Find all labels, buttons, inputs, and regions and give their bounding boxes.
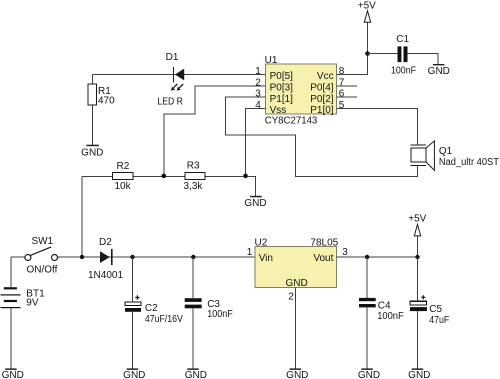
wire battery bottom to ground (10, 308, 12, 368)
svg-text:C4: C4 (378, 301, 391, 312)
capacitor C4 (359, 298, 376, 308)
wire C5 drop (417, 257, 419, 368)
U1 left pin labels (270, 71, 294, 116)
label 100nF C3 (207, 309, 233, 320)
transducer Q1 (411, 141, 435, 170)
wire +5V riser (417, 236, 419, 257)
ground under R1 (81, 145, 103, 159)
label Q1 (439, 146, 453, 157)
label R1 (98, 86, 111, 97)
resistor R3 (185, 172, 205, 179)
ground C3 (185, 368, 207, 379)
power +5V bottom (408, 214, 426, 236)
label 9V (26, 298, 39, 309)
svg-text:P1[0]: P1[0] (310, 105, 334, 116)
svg-text:Vin: Vin (259, 253, 273, 264)
svg-text:8: 8 (339, 66, 345, 77)
svg-text:Vss: Vss (270, 105, 287, 116)
label U1 (265, 55, 278, 66)
svg-text:LED R: LED R (157, 96, 183, 107)
svg-text:100nF: 100nF (207, 309, 233, 320)
svg-text:9V: 9V (26, 298, 39, 309)
svg-text:1: 1 (255, 66, 261, 77)
ground C5 (408, 368, 430, 379)
label 100nF C1 (391, 65, 416, 76)
power +5V top (358, 1, 376, 23)
svg-text:GND: GND (81, 148, 103, 159)
svg-text:47uF/16V: 47uF/16V (145, 314, 183, 325)
label 3,3k (184, 181, 204, 192)
wire U1 pin5 to speaker top (336, 108, 417, 145)
wire bottom row left (11, 256, 255, 258)
node +5V C1 junction (365, 51, 370, 56)
LED arrows (171, 84, 183, 91)
svg-text:78L05: 78L05 (310, 237, 338, 248)
svg-text:470: 470 (98, 95, 115, 106)
svg-text:100nF: 100nF (391, 65, 416, 76)
battery BT1 (1, 287, 21, 308)
label C2 (145, 303, 158, 314)
svg-text:7: 7 (339, 78, 345, 89)
svg-text:100nF: 100nF (377, 311, 404, 322)
wire U1 pin3 to speaker bottom (226, 97, 418, 176)
wire C1 right to ground (408, 54, 438, 65)
node C5 junction (415, 255, 419, 259)
node C3 junction (191, 255, 195, 259)
label BT1 (26, 288, 45, 299)
ground C4 (358, 368, 380, 379)
label U2 (255, 237, 268, 248)
regulator U2 box (255, 247, 336, 288)
svg-text:P0[2]: P0[2] (310, 94, 334, 105)
wire R1 vertical (92, 75, 94, 145)
svg-text:R3: R3 (187, 160, 200, 171)
wire U1 pin8 to +5V (336, 22, 367, 75)
label Nad_ultr 40ST (439, 157, 499, 168)
label LED R (157, 96, 183, 107)
ground C1 (428, 64, 450, 77)
svg-text:U2: U2 (255, 237, 268, 248)
svg-text:GND: GND (358, 370, 380, 379)
svg-text:3: 3 (255, 89, 261, 100)
svg-text:P0[3]: P0[3] (270, 83, 294, 94)
label 47uF (429, 315, 449, 326)
svg-text:D1: D1 (166, 52, 179, 63)
ground C2 (123, 368, 145, 379)
label C5 (429, 304, 442, 315)
svg-text:6: 6 (339, 89, 345, 100)
resistor R1 (88, 84, 97, 105)
svg-text:4: 4 (255, 100, 261, 111)
node R3 Vss junction (243, 174, 248, 179)
switch SW1 (25, 247, 58, 261)
svg-text:Q1: Q1 (439, 146, 453, 157)
svg-text:1N4001: 1N4001 (88, 270, 123, 281)
svg-text:P1[1]: P1[1] (270, 94, 294, 105)
svg-text:SW1: SW1 (32, 236, 54, 247)
U1 right pin labels (310, 71, 334, 116)
svg-text:C3: C3 (207, 299, 220, 310)
svg-text:Vcc: Vcc (317, 71, 334, 82)
svg-text:GND: GND (428, 66, 450, 77)
svg-text:C2: C2 (145, 303, 158, 314)
label 47uF/16V (145, 314, 183, 325)
svg-text:GND: GND (2, 370, 24, 379)
U1 pin numbers right (339, 66, 345, 111)
wire C3 drop (192, 257, 194, 368)
svg-text:GND: GND (185, 370, 207, 379)
svg-text:P0[4]: P0[4] (310, 83, 334, 94)
label ON/Off (27, 265, 58, 276)
svg-text:D2: D2 (99, 237, 112, 248)
ground battery (2, 368, 24, 379)
svg-text:U1: U1 (265, 55, 278, 66)
svg-text:R2: R2 (117, 161, 130, 172)
label D2 (99, 237, 112, 248)
wire C2 drop (132, 257, 134, 368)
capacitor C1 (398, 46, 408, 62)
label 100nF C4 (377, 311, 404, 322)
wire U1 pin6 stub (336, 96, 357, 98)
label SW1 (32, 236, 54, 247)
svg-text:GND: GND (123, 370, 145, 379)
U2 pin numbers (247, 247, 348, 302)
wire U1 pin7 stub (336, 85, 357, 87)
label 78L05 (310, 237, 338, 248)
svg-text:P0[5]: P0[5] (270, 71, 294, 82)
svg-text:GND: GND (286, 370, 308, 379)
wire U2 pin2 to ground (294, 288, 296, 369)
wire C4 drop (366, 257, 368, 368)
svg-text:10k: 10k (115, 181, 132, 192)
svg-text:2: 2 (288, 292, 294, 303)
label R3 (187, 160, 200, 171)
svg-text:CY8C27143: CY8C27143 (265, 116, 318, 127)
wire C1 left (368, 53, 398, 55)
resistor R2 (112, 172, 132, 179)
label R2 (117, 161, 130, 172)
diode D2 (100, 249, 113, 265)
svg-text:3,3k: 3,3k (184, 181, 204, 192)
label 470 (98, 95, 115, 106)
svg-text:C5: C5 (429, 304, 442, 315)
wire R2 R3 row (82, 177, 256, 196)
wire left drop to switch row (81, 177, 83, 258)
svg-text:C1: C1 (396, 34, 409, 45)
svg-text:1: 1 (247, 247, 253, 258)
U2 pin labels (259, 253, 334, 289)
U1 pin numbers left (255, 66, 261, 111)
node R2 R3 junction (162, 174, 167, 179)
label C1 (396, 34, 409, 45)
svg-text:ON/Off: ON/Off (27, 265, 58, 276)
label CY8C27143 (265, 116, 318, 127)
svg-text:Vout: Vout (313, 253, 333, 264)
wire U1 pin2 to R2/R3 node (164, 86, 266, 177)
node C4 junction (365, 255, 369, 259)
capacitor C3 (185, 298, 202, 308)
svg-text:GND: GND (244, 198, 266, 209)
svg-text:+5V: +5V (358, 1, 376, 12)
svg-text:GND: GND (408, 370, 430, 379)
op IC U1 box (266, 64, 337, 114)
label D1 (166, 52, 179, 63)
wire R1 top to LED and U1 pin1 (93, 74, 266, 76)
ground U2 (286, 368, 308, 379)
diode D1 LED (174, 67, 185, 82)
ground R3 node (244, 196, 266, 209)
capacitor C5 (410, 295, 427, 311)
svg-text:GND: GND (285, 278, 307, 289)
wire battery top (10, 257, 12, 287)
wire U1 pin4 to ground node (246, 108, 266, 176)
node switch drop junction (80, 255, 84, 259)
svg-text:+5V: +5V (408, 214, 426, 225)
svg-text:5: 5 (339, 100, 345, 111)
label C4 (378, 301, 391, 312)
svg-text:Nad_ultr 40ST: Nad_ultr 40ST (439, 157, 499, 168)
capacitor C2 (125, 295, 141, 311)
node C2 junction (130, 255, 134, 259)
svg-text:2: 2 (255, 78, 261, 89)
label C3 (207, 299, 220, 310)
label 1N4001 (88, 270, 123, 281)
label 10k (115, 181, 132, 192)
wire U2 output row (336, 256, 417, 258)
svg-text:47uF: 47uF (429, 315, 449, 326)
